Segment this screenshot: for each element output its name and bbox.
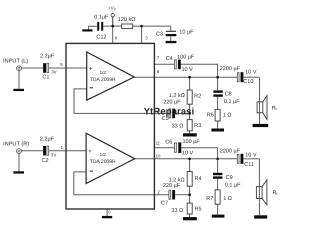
svg-text:R7: R7 [206,196,213,202]
svg-text:3V: 3V [51,152,56,157]
svg-text:C9: C9 [226,175,233,181]
svg-text:R3: R3 [194,123,201,129]
svg-text:100 µF: 100 µF [183,139,201,145]
svg-text:INPUT (L): INPUT (L) [3,57,28,64]
svg-text:+VS: +VS [108,6,116,12]
svg-text:33 Ω: 33 Ω [172,123,184,129]
svg-text:10: 10 [156,153,161,158]
svg-text:YtReparasi: YtReparasi [144,107,195,118]
svg-text:2200 µF: 2200 µF [220,149,241,155]
svg-text:1/2: 1/2 [100,152,107,157]
svg-text:+: + [89,67,93,73]
svg-text:0.1µF: 0.1µF [94,15,109,21]
svg-text:11: 11 [156,141,161,146]
svg-text:3V: 3V [51,69,56,74]
svg-text:TDA 2009R: TDA 2009R [90,77,116,83]
svg-text:1 Ω: 1 Ω [223,112,232,118]
svg-text:R2: R2 [194,93,201,99]
svg-text:C11: C11 [244,162,254,168]
svg-text:33 Ω: 33 Ω [171,208,183,214]
svg-text:C1: C1 [42,75,49,81]
svg-text:C12: C12 [96,34,106,40]
svg-text:R6: R6 [207,112,214,118]
svg-text:10 µF: 10 µF [179,30,194,36]
svg-text:220 µF: 220 µF [163,100,181,106]
svg-text:1.2 kΩ: 1.2 kΩ [169,93,185,99]
svg-text:+: + [88,149,92,155]
svg-text:10 V: 10 V [245,70,257,76]
svg-text:2200 µF: 2200 µF [220,66,241,72]
svg-text:C2: C2 [42,158,49,164]
svg-text:100 µF: 100 µF [177,55,195,61]
svg-text:10 V: 10 V [245,153,257,159]
svg-text:C7: C7 [161,201,168,207]
svg-text:0.1 µF: 0.1 µF [225,182,241,188]
svg-text:RL: RL [272,105,278,111]
svg-text:R5: R5 [195,207,202,213]
svg-text:C10: C10 [243,79,253,85]
svg-text:0.1 µF: 0.1 µF [224,99,240,105]
svg-text:2.2µF: 2.2µF [40,54,55,60]
svg-text:120 kΩ: 120 kΩ [118,17,136,23]
svg-text:R4: R4 [195,176,202,182]
svg-text:C8: C8 [225,92,232,98]
svg-text:TDA 2009R: TDA 2009R [90,159,116,165]
svg-text:C4: C4 [166,56,173,62]
svg-text:1/2: 1/2 [100,70,107,75]
svg-text:10 V: 10 V [182,67,194,73]
svg-text:C3: C3 [156,32,163,38]
svg-text:C6: C6 [165,140,172,146]
svg-text:INPUT (R): INPUT (R) [3,141,29,148]
svg-text:2.2µF: 2.2µF [40,136,55,142]
svg-text:1 Ω: 1 Ω [223,196,232,202]
svg-text:10 V: 10 V [182,151,194,157]
svg-text:RL: RL [273,190,279,196]
svg-text:220 µF: 220 µF [163,183,181,189]
